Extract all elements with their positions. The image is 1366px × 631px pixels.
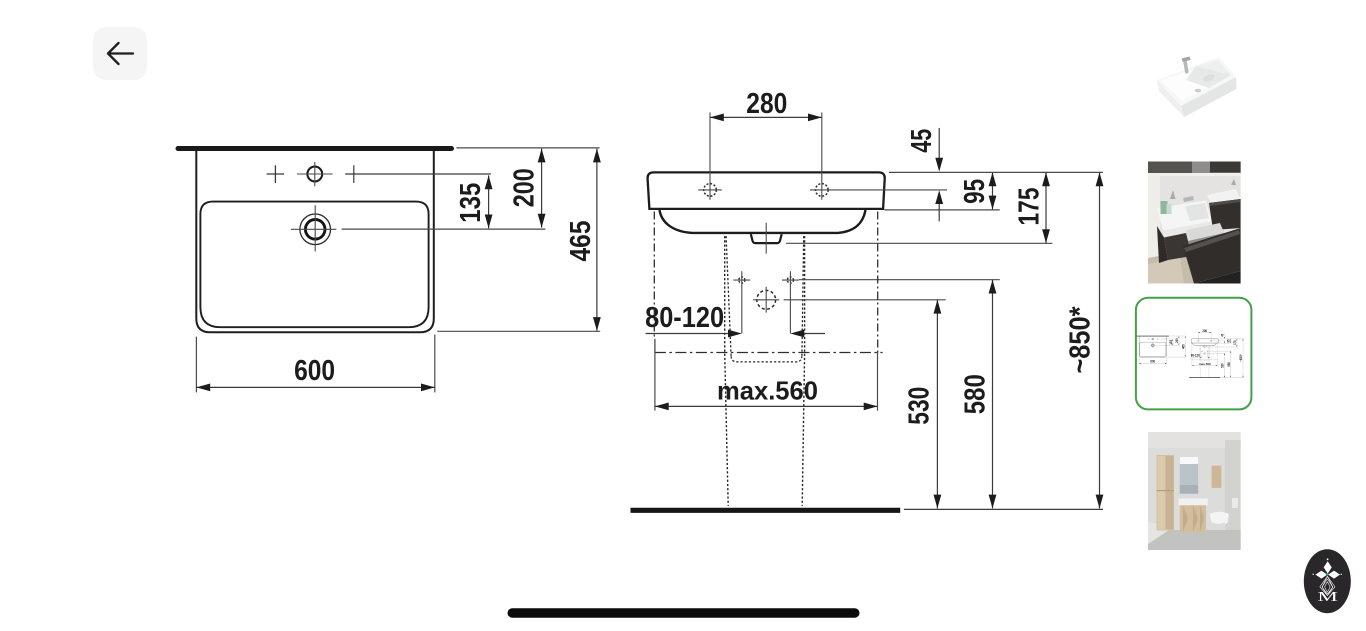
max.560 left extension dashed	[653, 212, 655, 339]
svg-text:530: 530	[904, 387, 936, 425]
left view: drain inner circle (bold)	[305, 220, 325, 240]
extension line: mounting hole level	[810, 189, 947, 191]
left view: tap hole circle	[307, 167, 322, 182]
dimension 95	[959, 172, 997, 209]
left view: extension line from drain level	[342, 228, 546, 230]
back button	[93, 27, 147, 80]
dimension 45	[906, 128, 943, 221]
thumbnail 3: selected technical drawing thumb with green border	[1136, 298, 1252, 410]
right view: left mounting hole (dashed)	[704, 184, 717, 197]
dimension 580	[959, 280, 996, 509]
siphon dashed left side	[726, 236, 731, 356]
dimension 280 extension lines	[709, 112, 711, 199]
left view: rear mounting bar (thick)	[178, 146, 452, 151]
extension line: body bottom level	[884, 209, 1000, 211]
right view: overflow/drain box	[751, 234, 782, 243]
svg-text:465: 465	[565, 221, 597, 262]
dimension 175	[1013, 172, 1050, 243]
fixing hole left (dashed)	[739, 277, 745, 283]
left view: right plus mark with extension to 135 dim	[345, 165, 491, 183]
svg-text:175: 175	[1013, 188, 1045, 226]
left view: drain outer circle	[300, 214, 331, 245]
right view: right mounting hole (dashed)	[816, 184, 829, 197]
extension line: overflow bottom level	[786, 242, 1052, 244]
svg-text:580: 580	[959, 374, 991, 414]
drain hole (dashed circle)	[757, 290, 776, 309]
dimension max.560	[655, 375, 878, 410]
extension line: top edge level to far right	[889, 171, 1103, 173]
pedestal dashed pipe left	[725, 236, 729, 506]
svg-text:95: 95	[959, 179, 991, 204]
bottom scrollbar indicator	[508, 608, 860, 618]
thumbnail 4: bathroom photo light wood	[1148, 432, 1241, 550]
svg-text:200: 200	[508, 168, 540, 207]
svg-text:600: 600	[294, 355, 335, 387]
siphon dashed right side	[802, 236, 804, 356]
dash-dot furniture top line	[655, 352, 883, 354]
svg-text:~850*: ~850*	[1065, 306, 1097, 374]
left view: tap hole crosshair	[297, 162, 333, 186]
thumbnail 2: bathroom photo dark vanity	[1148, 162, 1241, 284]
fixing hole right (dashed)	[787, 277, 793, 283]
svg-text:45: 45	[906, 129, 938, 153]
thumbnail 1: product photo (white sink)	[1157, 57, 1237, 118]
right view: drain centerline	[765, 223, 767, 254]
svg-text:80-120: 80-120	[645, 302, 724, 334]
dimension ~850*	[1065, 172, 1104, 508]
dimension 530	[904, 300, 942, 509]
svg-text:135: 135	[455, 183, 487, 223]
dimension 80-120	[645, 302, 825, 338]
max.560 left extension solid	[654, 353, 656, 411]
svg-text:M: M	[1317, 590, 1338, 605]
dimension 280	[710, 88, 822, 121]
siphon dashed bottom	[731, 356, 802, 362]
floor line thick	[631, 508, 901, 513]
svg-text:max.560: max.560	[717, 375, 818, 405]
left view: extension line at front bottom level	[437, 330, 600, 332]
right view: bowl underside	[660, 210, 866, 233]
floor line thin	[904, 508, 1103, 510]
corner vertical	[654, 339, 656, 353]
extension line: fixing holes level	[799, 279, 1000, 281]
svg-text:280: 280	[746, 88, 787, 120]
extension line: drain level	[784, 299, 946, 301]
left view: inner basin outline	[200, 202, 428, 328]
dimension 135	[455, 175, 493, 228]
dimension 600	[196, 335, 434, 393]
watermark logo	[1304, 549, 1351, 613]
left view: drain crosshair	[291, 205, 336, 251]
left view: left plus mark	[267, 165, 285, 183]
pedestal dashed pipe right	[802, 236, 804, 506]
fixing hole extension lines down	[741, 289, 743, 334]
max.560 right extension solid	[877, 353, 879, 411]
right view: basin body	[648, 172, 885, 209]
dimension 200	[508, 149, 545, 228]
dimension 465	[565, 149, 601, 331]
left view: extension line at rear bar level	[456, 147, 599, 149]
left view: outer body outline	[196, 151, 433, 332]
max.560 right extension dashed	[877, 212, 879, 353]
